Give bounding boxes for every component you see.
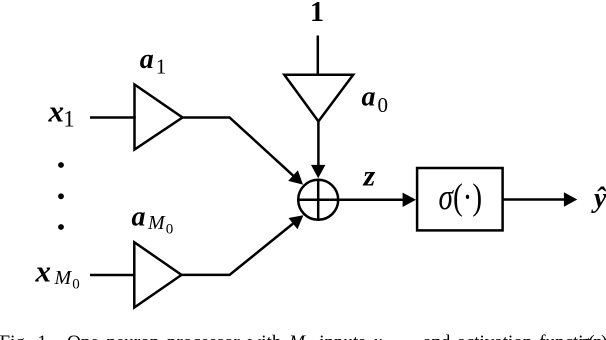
caption part 3 [579,333,606,340]
svg-text:a: a [362,82,376,113]
plus sign horizontal bar [297,199,339,202]
arrowhead output [564,192,577,206]
wire a1 output to summer [183,118,294,176]
activation block U1 sigma box [417,168,503,230]
svg-text:x: x [35,254,52,289]
wire aM0 output to summer [182,224,294,275]
amplifier triangle A1 (gain a1, pointing right) [135,85,183,150]
svg-text:x: x [48,93,65,128]
arrowhead into sigma box [403,193,416,207]
svg-text:0: 0 [166,222,174,238]
wire bias input [317,36,320,75]
wire summer to sigma box [338,199,403,202]
dots (vertical ellipsis) [58,162,64,168]
summing junction circle [298,180,338,220]
arrowhead bias into summer [311,165,325,178]
svg-text:1: 1 [63,106,75,131]
caption part 2 [423,333,603,340]
arrowhead aM0 branch into summer [289,215,304,229]
plus sign vertical bar [317,179,320,221]
svg-text:0: 0 [378,93,389,117]
wire xM0 input [90,274,136,277]
svg-text:ŷ: ŷ [591,183,606,214]
svg-text:z: z [363,159,376,192]
wire sigma box output [503,198,565,201]
amplifier triangle A0 (bias gain, pointing down) [284,75,353,122]
svg-text:1: 1 [156,54,167,78]
svg-text:σ(·): σ(·) [439,177,483,218]
caption Fig. 1 (clipped at page bottom, only letter tops visible) [0,333,440,340]
svg-text:a: a [140,44,154,75]
svg-text:M: M [147,212,166,234]
svg-text:a: a [132,202,146,233]
amplifier triangle AM0 (gain aM0, pointing right) [134,242,181,307]
wire bias to summer [317,120,320,166]
svg-text:1: 1 [310,0,324,28]
svg-text:M: M [54,267,73,289]
arrowhead a1 branch into summer [288,170,303,184]
svg-text:0: 0 [72,277,80,293]
wire x1 input [90,116,136,119]
